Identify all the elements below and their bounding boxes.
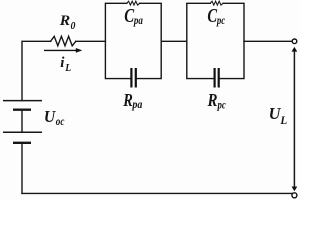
- svg-text:oc: oc: [56, 116, 65, 128]
- svg-text:R: R: [207, 90, 218, 110]
- svg-text:pa: pa: [133, 13, 143, 27]
- svg-text:L: L: [64, 62, 71, 74]
- svg-text:U: U: [44, 107, 56, 126]
- svg-text:pc: pc: [217, 97, 227, 111]
- svg-text:L: L: [279, 113, 287, 127]
- svg-text:pc: pc: [216, 13, 226, 27]
- svg-text:U: U: [269, 104, 281, 123]
- svg-text:R: R: [122, 90, 132, 110]
- svg-text:R: R: [59, 13, 70, 29]
- svg-text:0: 0: [71, 20, 76, 32]
- svg-text:pa: pa: [132, 97, 143, 111]
